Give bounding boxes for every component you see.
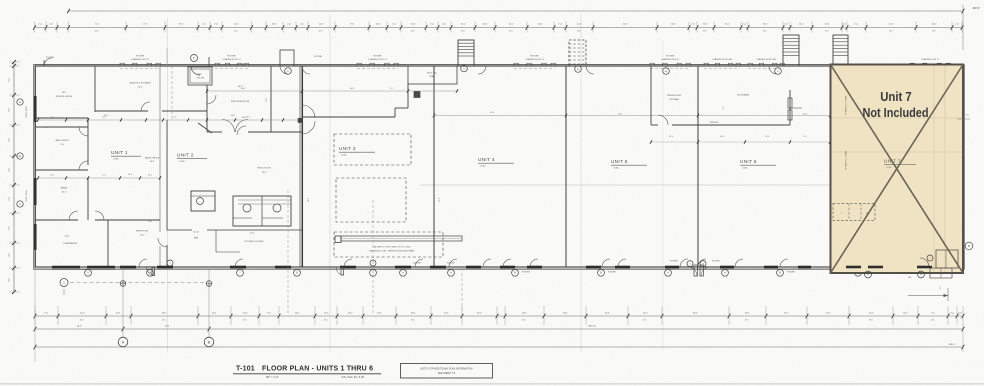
- unit7 door tags: [865, 271, 872, 278]
- svg-text:FUTURE: FUTURE: [670, 261, 678, 263]
- svg-text:M.O.: M.O.: [825, 31, 830, 33]
- unit7 highlight region: [831, 65, 964, 274]
- stair tower at unit7 top: [833, 35, 848, 66]
- storefront glazing segments: [120, 266, 136, 269]
- trench access panel square: [335, 236, 341, 243]
- svg-text:1/8" = 1'-0": 1/8" = 1'-0": [265, 375, 278, 379]
- corridor wall: [35, 126, 88, 128]
- svg-text:M.O.: M.O.: [889, 31, 894, 33]
- elec room: [408, 66, 457, 84]
- steves office bottom wall: [35, 117, 88, 119]
- svg-text:M.O.: M.O.: [95, 31, 100, 33]
- svg-text:10'-0: 10'-0: [148, 221, 152, 223]
- building outer wall inner face: [35, 66, 962, 267]
- svg-text:STORAGE: STORAGE: [669, 98, 679, 101]
- svg-text:CONC.: CONC.: [179, 161, 186, 163]
- door tags bottom wall: [85, 269, 92, 276]
- svg-text:36'-0: 36'-0: [150, 161, 154, 163]
- wall between unit3 and unit4: [433, 66, 435, 267]
- svg-text:6'-0: 6'-0: [103, 175, 106, 177]
- svg-text:16'-4: 16'-4: [128, 174, 132, 176]
- svg-text:M.O.: M.O.: [509, 31, 514, 33]
- svg-text:16'-4: 16'-4: [50, 175, 54, 177]
- pre-press door arc: [222, 120, 235, 133]
- unit7 X diagonal 2: [831, 65, 964, 274]
- jans office bottom wall: [35, 169, 88, 171]
- restroom small: [191, 191, 215, 211]
- svg-text:Unit 7: Unit 7: [880, 90, 912, 104]
- stair tower at unit6 top: [783, 35, 799, 66]
- svg-text:LOADING DOCK #6B: LOADING DOCK #6B: [756, 58, 776, 61]
- svg-text:(8) DEEP X 39 3/8" WIDE X 97'-: (8) DEEP X 39 3/8" WIDE X 97'-6" LONG: [374, 247, 411, 249]
- recessed conc trench bar: [341, 236, 462, 241]
- svg-text:M.O.: M.O.: [319, 31, 324, 33]
- svg-text:FUTURE: FUTURE: [314, 56, 322, 58]
- building bottom wall double line: [35, 268, 963, 270]
- svg-text:JACKETS & STORAGE: JACKETS & STORAGE: [129, 82, 151, 85]
- pre-press dim line: [207, 90, 457, 92]
- production angled wall: [198, 123, 212, 133]
- svg-text:LOADING DOCK #5: LOADING DOCK #5: [661, 58, 680, 61]
- svg-text:UNIT 6: UNIT 6: [740, 159, 757, 164]
- svg-text:FUTURE: FUTURE: [413, 263, 421, 265]
- door arcs through unit2/3 wall: [302, 105, 315, 118]
- building outer wall outer face: [34, 65, 964, 270]
- svg-text:20'-0: 20'-0: [765, 136, 769, 138]
- ent ctrl room: [188, 67, 212, 85]
- svg-text:FUTURE: FUTURE: [227, 55, 236, 57]
- conference window band: [52, 266, 80, 269]
- production equipment lines: [238, 199, 291, 201]
- svg-text:20'-0: 20'-0: [720, 136, 724, 138]
- svg-text:M.O.: M.O.: [324, 319, 329, 321]
- svg-text:CONC.: CONC.: [613, 168, 620, 170]
- svg-text:UNIT 3: UNIT 3: [339, 146, 356, 151]
- left wall window mullions: [34, 96, 37, 122]
- svg-text:BVAP: BVAP: [430, 75, 435, 78]
- svg-text:10'-0: 10'-0: [246, 117, 250, 119]
- note box: [401, 364, 493, 379]
- wall above conference: [35, 219, 78, 221]
- svg-text:24'-0: 24'-0: [148, 175, 152, 177]
- svg-text:FUTURE: FUTURE: [608, 272, 616, 274]
- pre-press bottom wall: [207, 131, 222, 133]
- left dimension string: [13, 62, 15, 292]
- svg-text:M.O.: M.O.: [80, 319, 85, 321]
- svg-text:FUTURE: FUTURE: [522, 272, 530, 274]
- wall between unit4 and unit5: [565, 66, 567, 267]
- unit7 border: [831, 65, 964, 274]
- svg-text:M.O.: M.O.: [577, 31, 582, 33]
- fresh room left wall: [650, 66, 652, 125]
- svg-text:SPRNKLR: SPRNKLR: [710, 122, 719, 124]
- svg-text:40'-0: 40'-0: [490, 112, 494, 114]
- svg-text:BAR: BAR: [194, 237, 199, 240]
- svg-text:FUTURE: FUTURE: [787, 272, 795, 274]
- svg-text:9'-7: 9'-7: [803, 136, 806, 138]
- future door arc unit3 top: [302, 66, 310, 74]
- bottom overall dim line: [35, 346, 963, 348]
- svg-text:M.O.: M.O.: [522, 319, 527, 321]
- svg-text:RECEPTION: RECEPTION: [136, 231, 148, 233]
- svg-text:40'-0: 40'-0: [350, 88, 354, 90]
- unit7 dn ramp: [920, 258, 929, 267]
- svg-text:LOADING DOCK #4: LOADING DOCK #4: [525, 58, 544, 61]
- svg-text:FUTURE: FUTURE: [46, 57, 54, 59]
- svg-text:40'-0: 40'-0: [618, 113, 622, 115]
- svg-text:CONC.: CONC.: [480, 166, 487, 168]
- svg-text:UNIT 5: UNIT 5: [611, 159, 628, 164]
- svg-text:7'-4: 7'-4: [389, 88, 392, 90]
- door arc at stair unit3: [478, 66, 486, 74]
- svg-text:UNIT 1: UNIT 1: [111, 150, 128, 155]
- svg-text:14'-0: 14'-0: [669, 136, 673, 138]
- svg-text:8'-0: 8'-0: [174, 117, 177, 119]
- svg-text:KERTL WDW: KERTL WDW: [26, 190, 28, 201]
- svg-text:RECESSED CONC. TRENCH W/ ACCES: RECESSED CONC. TRENCH W/ ACCESS PANEL: [369, 250, 415, 253]
- svg-text:UNIT 7: UNIT 7: [884, 159, 901, 164]
- double entry doors at unit5/6: [694, 265, 698, 276]
- fold crease x581: [580, 14, 582, 352]
- unit3 dashed boundary box: [334, 134, 411, 165]
- svg-text:97'-6: 97'-6: [439, 198, 441, 202]
- svg-text:DN.: DN.: [908, 277, 912, 279]
- svg-text:STEVE'S OFFICE: STEVE'S OFFICE: [56, 96, 73, 98]
- svg-text:PRODUCTION: PRODUCTION: [257, 168, 271, 170]
- circled 1 marker bottom left: [60, 279, 68, 287]
- unit1 unit2 dividing wall: [166, 120, 168, 230]
- svg-text:NOTE: FOR ADDITIONAL PLAN INFO: NOTE: FOR ADDITIONAL PLAN INFORMATION: [421, 368, 473, 371]
- svg-text:34'-0: 34'-0: [241, 88, 245, 90]
- top dimension string: [35, 27, 964, 29]
- svg-text:M.O.: M.O.: [932, 31, 937, 33]
- interior dim line units 4-6: [434, 115, 830, 117]
- svg-text:7'-0: 7'-0: [43, 127, 46, 129]
- interior door arc 7: [141, 102, 150, 111]
- unit7 bottom-right room: [936, 250, 958, 268]
- interior dim line left block upper: [38, 119, 300, 121]
- svg-text:40'-0: 40'-0: [803, 113, 807, 115]
- restroom pair: [233, 196, 291, 226]
- svg-text:FUTURE: FUTURE: [530, 55, 539, 57]
- svg-text:6A: 6A: [149, 272, 152, 275]
- svg-text:M.O.: M.O.: [411, 319, 416, 321]
- unit7 corner box below wall: [930, 268, 952, 278]
- svg-text:M: M: [866, 213, 868, 215]
- svg-text:T-101: T-101: [236, 366, 255, 373]
- jackets storage bottom wall: [95, 110, 148, 112]
- conference right wall: [107, 220, 109, 267]
- svg-text:KERTL WDW: KERTL WDW: [26, 106, 28, 117]
- unit3 top wall: [302, 116, 395, 118]
- door leaf below wall at bar: [341, 268, 344, 276]
- svg-text:CTRL RM: CTRL RM: [196, 78, 204, 80]
- extension line below wall at x288: [287, 190, 289, 313]
- svg-text:LOADING DOCK #6A: LOADING DOCK #6A: [712, 58, 732, 61]
- interior dim line units56: [651, 141, 830, 143]
- wall between unit2 and unit3: [301, 66, 303, 267]
- extension line below wall at x462: [461, 268, 463, 313]
- door arc at future stair unit4: [586, 66, 594, 74]
- svg-text:SPRNKLR CO. PANEL: SPRNKLR CO. PANEL: [845, 95, 848, 114]
- scan crease line: [420, 184, 963, 186]
- svg-text:Not Included: Not Included: [863, 106, 929, 120]
- svg-text:SPRNKLR CO. PANEL: SPRNKLR CO. PANEL: [845, 150, 848, 169]
- door arc unit7 stair: [850, 66, 858, 74]
- svg-text:UNIT 2: UNIT 2: [177, 153, 194, 158]
- svg-text:M.O.: M.O.: [234, 31, 239, 33]
- svg-text:PRE-PRESS ROOM: PRE-PRESS ROOM: [231, 101, 250, 103]
- svg-text:M.O.: M.O.: [703, 31, 708, 33]
- svg-text:M.O.: M.O.: [745, 319, 750, 321]
- unit7 texture creases: [933, 65, 935, 274]
- svg-text:LOADING DOCK #2: LOADING DOCK #2: [222, 58, 241, 61]
- svg-text:M.O.: M.O.: [243, 319, 248, 321]
- interior door arc 1: [79, 161, 88, 170]
- interior door arc 5: [158, 238, 167, 247]
- svg-text:CONC.: CONC.: [341, 155, 348, 157]
- door arc right of vestibule: [280, 66, 288, 74]
- svg-text:FUTURE: FUTURE: [666, 55, 675, 57]
- stair tower at unit3 top: [458, 40, 474, 66]
- door arc unit6 stair: [769, 66, 777, 74]
- trench dashed outline: [334, 232, 443, 257]
- small circles above bottom wall: [167, 260, 173, 266]
- bottom second dim line: [35, 328, 963, 330]
- dock area right wall: [789, 90, 791, 125]
- svg-text:CONC.: CONC.: [742, 168, 749, 170]
- svg-text:SALES OFFICE: SALES OFFICE: [145, 157, 160, 160]
- fresh room door arc: [658, 115, 668, 125]
- kitchen top wall: [167, 229, 192, 231]
- svg-text:CONC.: CONC.: [113, 159, 120, 161]
- wall right of steves office: [94, 66, 96, 112]
- svg-text:26'-0: 26'-0: [104, 115, 108, 117]
- extension line below wall at x373: [372, 200, 374, 313]
- fold crease x167: [167, 18, 169, 352]
- svg-text:CONC.: CONC.: [886, 167, 893, 169]
- elec panel square: [414, 92, 420, 98]
- fold crease x663: [662, 40, 664, 350]
- svg-text:PRESS ROOM: PRESS ROOM: [667, 95, 681, 97]
- entry door arcs bottom wall: [139, 259, 147, 267]
- svg-text:M.O.: M.O.: [643, 319, 648, 321]
- svg-text:(280'-0"): (280'-0"): [588, 326, 596, 328]
- svg-text:FLOOR PLAN - UNITS 1 THRU: FLOOR PLAN - UNITS 1 THRU 6: [262, 366, 373, 373]
- interior door arc 6: [207, 95, 216, 104]
- svg-text:M.O.: M.O.: [931, 319, 936, 321]
- overall top dimension line 280ft: [69, 10, 964, 12]
- interior dim line left block mid: [38, 177, 160, 179]
- office column wall: [87, 118, 89, 165]
- svg-text:M.O.: M.O.: [763, 31, 768, 33]
- svg-text:M.O.: M.O.: [869, 319, 874, 321]
- door arc at unit1 top: [191, 66, 200, 75]
- wall between unit5 and unit6: [697, 66, 699, 267]
- unit1/2 future wall dashed: [171, 66, 173, 120]
- svg-text:M.O.: M.O.: [461, 31, 466, 33]
- svg-text:KITCHEN / LOUNGE: KITCHEN / LOUNGE: [245, 241, 265, 243]
- svg-text:50'-0: 50'-0: [308, 198, 310, 202]
- svg-text:UNIT 4: UNIT 4: [478, 157, 495, 162]
- svg-text:280'-0": 280'-0": [949, 344, 956, 346]
- svg-text:M.O.: M.O.: [411, 31, 416, 33]
- svg-text:FUTURE: FUTURE: [373, 55, 382, 57]
- unit7 bottom-left rooms: [833, 204, 875, 221]
- svg-text:LOADING DOCK #1: LOADING DOCK #1: [131, 58, 150, 61]
- future stair dashed at unit4 top: [569, 40, 586, 66]
- svg-text:LOADING DOCK #7: LOADING DOCK #7: [921, 58, 940, 61]
- unit7 storefront segs: [846, 266, 861, 269]
- bottom dimension string: [35, 315, 963, 317]
- fold crease x330: [329, 14, 331, 352]
- vestibule box at unit2/3 wall top: [280, 50, 294, 66]
- svg-text:9'-0: 9'-0: [723, 107, 725, 110]
- svg-text:JAN'S OFFICE: JAN'S OFFICE: [55, 139, 69, 142]
- svg-text:CONFERENCE: CONFERENCE: [63, 243, 78, 245]
- unit3 dashed inner box: [336, 178, 406, 222]
- svg-text:40'-0: 40'-0: [231, 115, 235, 117]
- right edge tick 7ft: [957, 118, 970, 120]
- svg-text:LOADING DOCK #3: LOADING DOCK #3: [368, 58, 387, 61]
- svg-text:FUTURE: FUTURE: [136, 55, 145, 57]
- pre-press left wall: [206, 85, 208, 132]
- svg-text:FUTURE: FUTURE: [447, 263, 455, 265]
- unit7 X diagonal 1: [831, 65, 964, 274]
- grid line B: [208, 270, 210, 337]
- svg-text:SEE SHEET T-2: SEE SHEET T-2: [438, 372, 456, 375]
- interior door arc 3: [69, 211, 78, 220]
- svg-text:16'-0: 16'-0: [266, 98, 268, 102]
- svg-text:7'-4: 7'-4: [51, 117, 54, 119]
- dock double door: [788, 98, 792, 108]
- svg-text:ADMIN: ADMIN: [61, 187, 68, 190]
- svg-text:ELEC. RM.: ELEC. RM.: [427, 73, 437, 75]
- svg-text:280'-0": 280'-0": [973, 7, 981, 10]
- interior door arc 4: [95, 211, 104, 220]
- grid line A: [122, 270, 124, 337]
- interior door arc 8: [237, 126, 246, 135]
- svg-text:FUTURE: FUTURE: [712, 261, 720, 263]
- fresh room bottom wall: [651, 124, 658, 126]
- svg-text:FIN. FLR. EL: 5.00': FIN. FLR. EL: 5.00': [342, 375, 365, 379]
- counter line kitchen: [215, 230, 217, 252]
- svg-text:M.O.: M.O.: [162, 319, 167, 321]
- pre-press right wall: [270, 66, 272, 132]
- interior door arc 2: [79, 127, 88, 136]
- svg-text:DOCK AREA: DOCK AREA: [737, 94, 749, 97]
- svg-text:3'-2: 3'-2: [940, 287, 942, 290]
- future door top-left corner: [44, 58, 52, 66]
- circled B right edge: [965, 242, 973, 250]
- svg-text:12'-10: 12'-10: [193, 232, 199, 234]
- door leaf below wall at reception: [152, 268, 155, 276]
- left room tag hexagons: [17, 99, 23, 105]
- svg-text:B: B: [968, 244, 970, 248]
